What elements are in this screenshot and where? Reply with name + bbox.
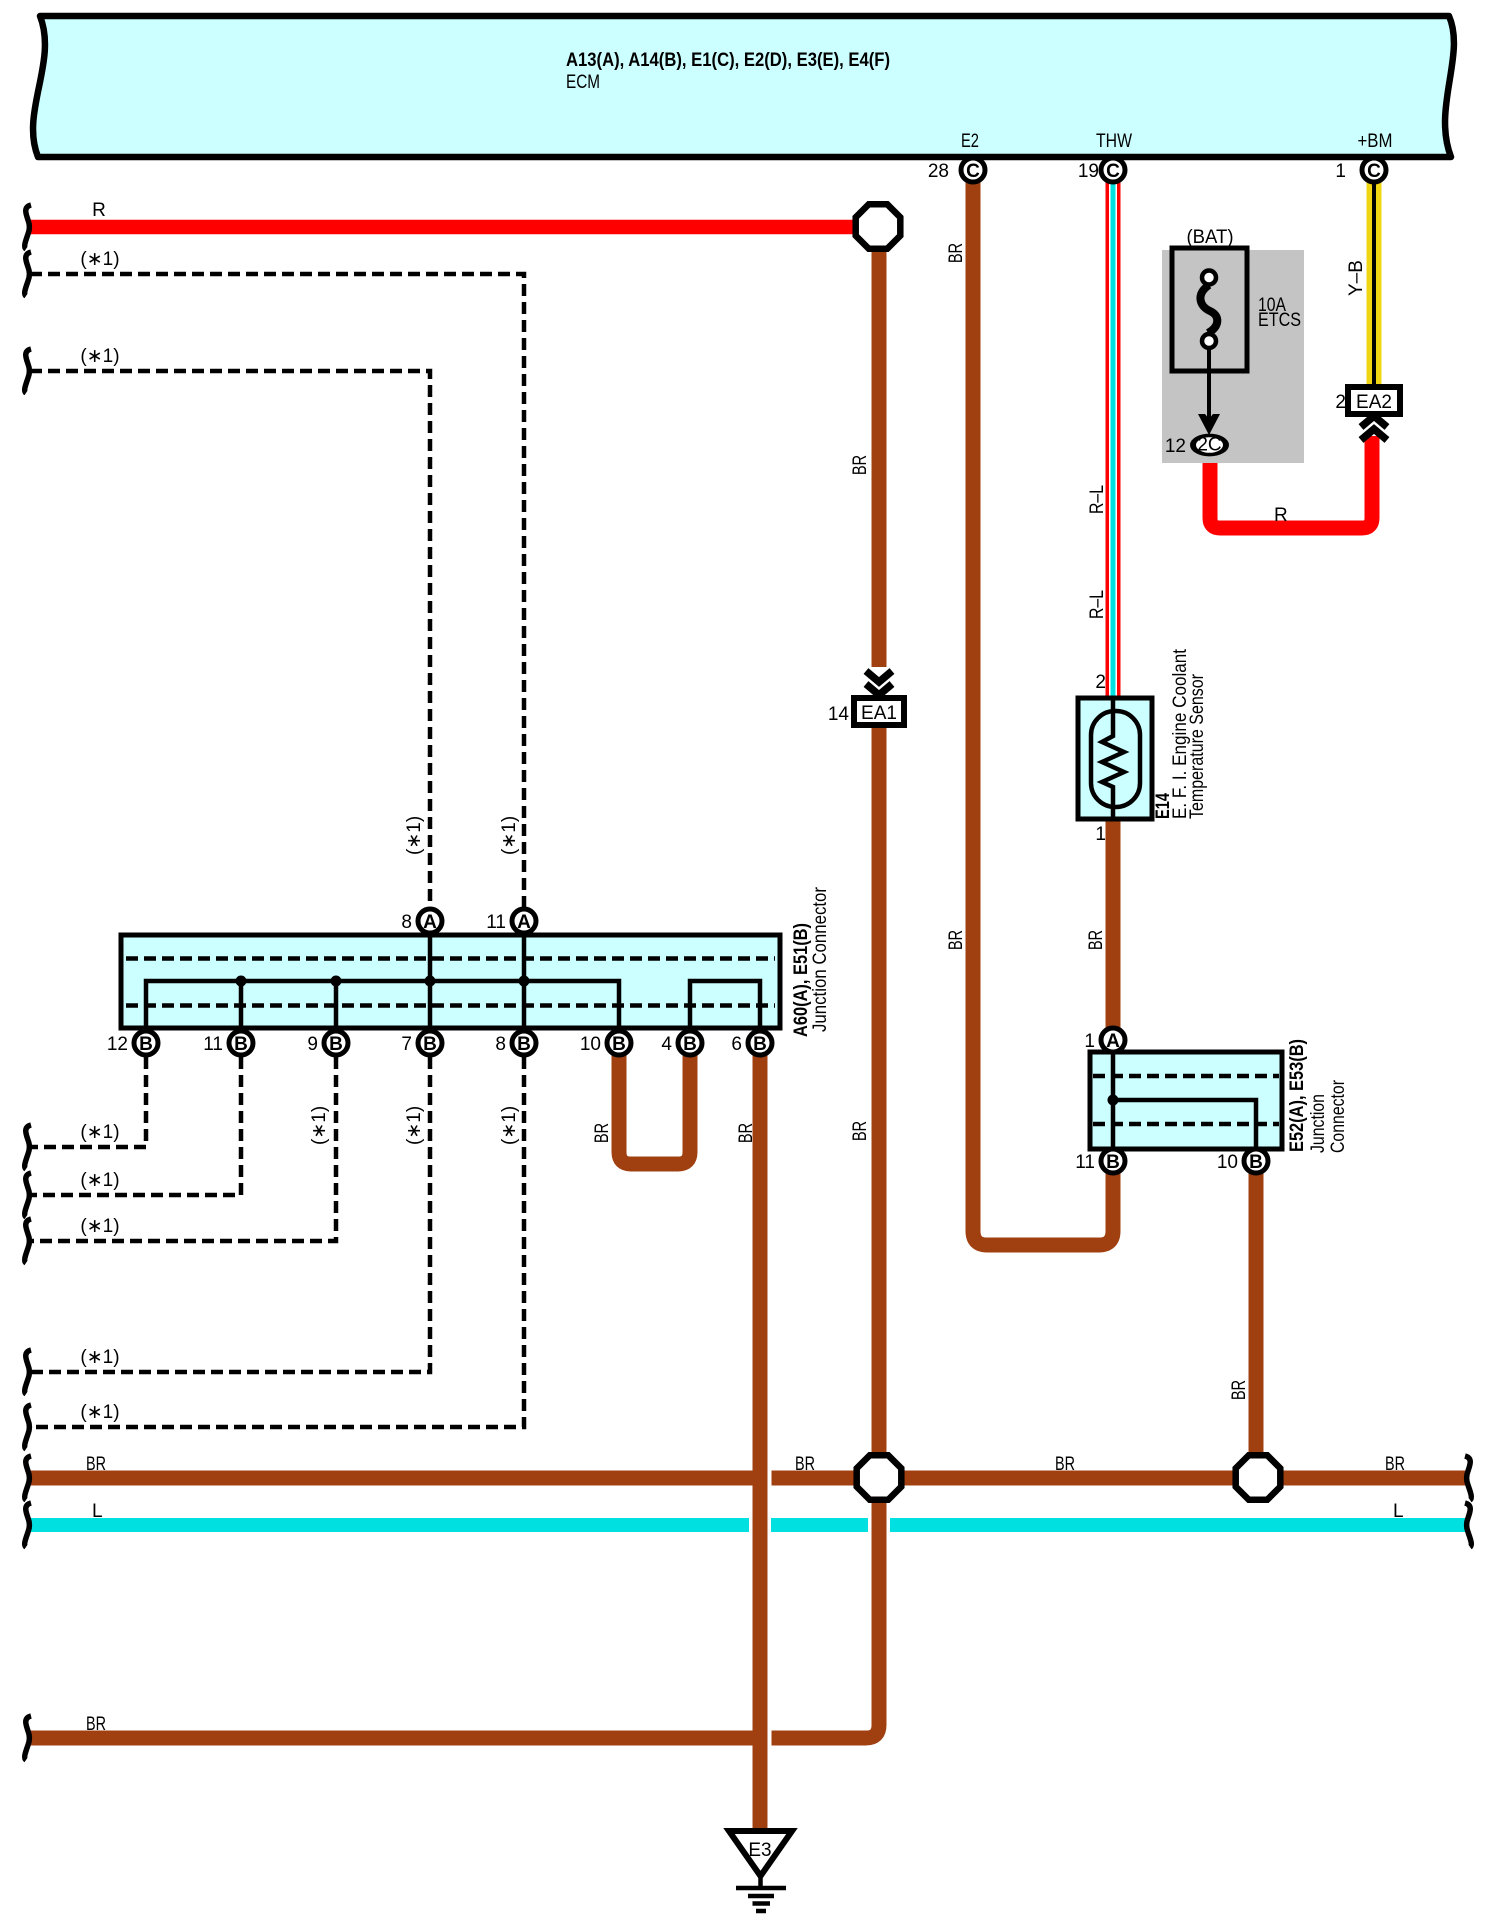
wire (*1) dashed upper 2 to pin 8A [30, 346, 430, 907]
svg-text:BR: BR [795, 1454, 815, 1475]
pin 11A circle [486, 909, 536, 933]
svg-text:+BM: +BM [1358, 131, 1393, 152]
svg-text:BR: BR [946, 243, 967, 263]
svg-text:2: 2 [1095, 672, 1106, 693]
svg-text:28: 28 [928, 161, 949, 182]
ECM pin 1 circle (+BM) [1335, 158, 1386, 182]
svg-text:Junction: Junction [1308, 1094, 1329, 1153]
octagon junction J1 [856, 204, 901, 249]
wire R-L from ECM pin 19 (THW) down to E14 pin 2 [1087, 170, 1113, 698]
svg-text:B: B [1249, 1152, 1263, 1173]
svg-text:L: L [92, 1501, 103, 1522]
EA2 connector [1335, 387, 1400, 440]
wire (*1) dashed upper 1 to pin 11A [30, 249, 524, 907]
svg-text:B: B [753, 1034, 767, 1055]
svg-text:E2: E2 [961, 131, 979, 152]
svg-text:(∗1): (∗1) [80, 346, 119, 367]
EA1 connector [828, 671, 904, 725]
svg-text:BR: BR [850, 455, 871, 475]
svg-text:R–L: R–L [1087, 485, 1108, 514]
fuse 10A ETCS block [1162, 227, 1304, 463]
svg-text:BR: BR [86, 1714, 106, 1735]
pin 4B circle [661, 1031, 702, 1055]
svg-text:Junction Connector: Junction Connector [810, 886, 831, 1032]
2C oval connector [1165, 434, 1229, 457]
svg-text:11: 11 [203, 1034, 223, 1055]
svg-text:EA2: EA2 [1356, 392, 1392, 413]
svg-text:L: L [1393, 1501, 1404, 1522]
svg-text:6: 6 [731, 1034, 742, 1055]
wire (*1) dashed from pin 12B to left edge [30, 1057, 146, 1147]
svg-text:A13(A), A14(B), E1(C), E2(D),: A13(A), A14(B), E1(C), E2(D), E3(E), E4(… [566, 50, 890, 71]
octagon junction J3 [1236, 1455, 1281, 1500]
svg-text:E52(A), E53(B): E52(A), E53(B) [1287, 1039, 1308, 1152]
svg-text:ECM: ECM [566, 72, 600, 93]
svg-text:2: 2 [1335, 392, 1346, 413]
ECM pin 19 circle (THW) [1078, 158, 1125, 182]
svg-text:A: A [1106, 1031, 1120, 1052]
svg-text:(∗1): (∗1) [404, 816, 425, 855]
pin 7B circle [401, 1031, 442, 1055]
svg-text:(∗1): (∗1) [404, 1106, 425, 1145]
pin 11B circle (E52) [1075, 1149, 1125, 1173]
svg-text:R–L: R–L [1087, 590, 1108, 619]
svg-text:B: B [234, 1034, 248, 1055]
svg-text:12: 12 [107, 1034, 128, 1055]
svg-text:A: A [423, 912, 437, 933]
svg-text:(∗1): (∗1) [80, 1170, 119, 1191]
svg-text:1: 1 [1335, 161, 1346, 182]
svg-text:(BAT): (BAT) [1187, 227, 1234, 248]
octagon junction J2 [857, 1455, 902, 1500]
pin 10B circle (E52) [1217, 1149, 1268, 1173]
pin 9B circle [307, 1031, 348, 1055]
svg-text:(∗1): (∗1) [80, 1216, 119, 1237]
svg-text:BR: BR [850, 1121, 871, 1141]
pin 10B circle [580, 1031, 631, 1055]
svg-text:BR: BR [1385, 1454, 1405, 1475]
svg-text:R: R [1274, 505, 1288, 526]
svg-text:A: A [517, 912, 531, 933]
svg-text:B: B [329, 1034, 343, 1055]
svg-text:A60(A), E51(B): A60(A), E51(B) [791, 923, 812, 1037]
svg-text:B: B [139, 1034, 153, 1055]
svg-text:BR: BR [1229, 1380, 1250, 1400]
svg-text:B: B [517, 1034, 531, 1055]
svg-text:EA1: EA1 [861, 703, 897, 724]
svg-text:11: 11 [486, 912, 506, 933]
wire R (red) from left edge to junction J1 [30, 200, 879, 227]
svg-text:(∗1): (∗1) [80, 249, 119, 270]
pin 8A circle [401, 909, 442, 933]
svg-text:7: 7 [401, 1034, 412, 1055]
svg-text:BR: BR [86, 1454, 106, 1475]
svg-text:14: 14 [828, 704, 850, 725]
svg-text:2C: 2C [1197, 435, 1221, 456]
svg-text:(∗1): (∗1) [309, 1106, 330, 1145]
svg-text:C: C [1106, 161, 1120, 182]
svg-text:4: 4 [661, 1034, 672, 1055]
svg-text:1: 1 [1084, 1031, 1095, 1052]
wire (*1) dashed from pin 11B to left edge [30, 1057, 241, 1195]
wire BR bottom-left to octagon J2 [30, 1477, 879, 1746]
svg-text:B: B [423, 1034, 437, 1055]
svg-text:Temperature Sensor: Temperature Sensor [1187, 673, 1208, 819]
pin 12B circle [107, 1031, 158, 1055]
svg-text:8: 8 [495, 1034, 506, 1055]
svg-text:9: 9 [307, 1034, 318, 1055]
pin 1A circle (E52) [1084, 1028, 1125, 1052]
wire (*1) dashed from pin 9B to left edge [30, 1057, 336, 1241]
E14 engine coolant temperature sensor [1078, 648, 1208, 845]
svg-text:BR: BR [946, 930, 967, 950]
junction connector A60(A), E51(B) [121, 886, 831, 1043]
wire BR from pin 6B down to ground E3 [753, 1043, 768, 1830]
svg-text:Y–B: Y–B [1346, 260, 1367, 296]
svg-text:8: 8 [401, 912, 412, 933]
wire (*1) dashed from pin 8B to left edge [30, 816, 524, 1427]
wire BR horizontal main [30, 1454, 1466, 1486]
pin 11B circle [203, 1031, 253, 1055]
svg-text:Connector: Connector [1328, 1079, 1349, 1153]
wire R (red) from 2C oval to EA2 [1210, 436, 1372, 528]
wire (*1) dashed from pin 7B to left edge [30, 816, 430, 1372]
torn-wire brace marks (wire continuation symbols) [25, 205, 1472, 1760]
svg-text:BR: BR [592, 1123, 613, 1143]
wire BR from octagon J1 down through EA1 [850, 227, 879, 1477]
svg-text:(∗1): (∗1) [499, 816, 520, 855]
svg-text:C: C [966, 161, 980, 182]
svg-text:19: 19 [1078, 161, 1099, 182]
ECM connector block A13/A14/E1/E2/E3/E4 [33, 16, 1454, 157]
wire BR from E52 pin 10B down to octagon J3 [1229, 1161, 1256, 1477]
svg-text:B: B [683, 1034, 697, 1055]
svg-text:(∗1): (∗1) [80, 1402, 119, 1423]
svg-text:(∗1): (∗1) [80, 1347, 119, 1368]
svg-text:E3: E3 [748, 1840, 771, 1861]
svg-text:ETCS: ETCS [1258, 310, 1301, 331]
wire Y-B from ECM pin 1 (+BM) down to EA2 [1346, 170, 1374, 387]
pin 6B circle [731, 1031, 772, 1055]
ECM pin 28 circle (E2) [928, 158, 985, 182]
svg-text:THW: THW [1096, 131, 1132, 152]
ground E3 [729, 1831, 792, 1911]
wire BR from E14 pin 1 down to E52 pin 1A [1086, 819, 1113, 1040]
svg-text:BR: BR [1055, 1454, 1075, 1475]
wire BR U-loop between pins 10B and 4B [592, 1043, 757, 1164]
svg-text:(∗1): (∗1) [80, 1122, 119, 1143]
svg-text:BR: BR [1086, 930, 1107, 950]
svg-text:12: 12 [1165, 436, 1186, 457]
svg-text:(∗1): (∗1) [499, 1106, 520, 1145]
svg-text:R: R [92, 200, 106, 221]
pin 8B circle [495, 1031, 536, 1055]
wire BR from ECM pin 28 (E2) down and over to E52 pin 11B [946, 170, 1113, 1245]
svg-text:10: 10 [580, 1034, 601, 1055]
junction connector E52(A), E53(B) [1090, 1039, 1349, 1161]
svg-text:10: 10 [1217, 1152, 1238, 1173]
wire L (cyan) horizontal [30, 1501, 1466, 1525]
svg-text:B: B [1106, 1152, 1120, 1173]
svg-text:B: B [612, 1034, 626, 1055]
svg-text:C: C [1367, 161, 1381, 182]
svg-text:11: 11 [1075, 1152, 1095, 1173]
svg-text:1: 1 [1095, 824, 1106, 845]
